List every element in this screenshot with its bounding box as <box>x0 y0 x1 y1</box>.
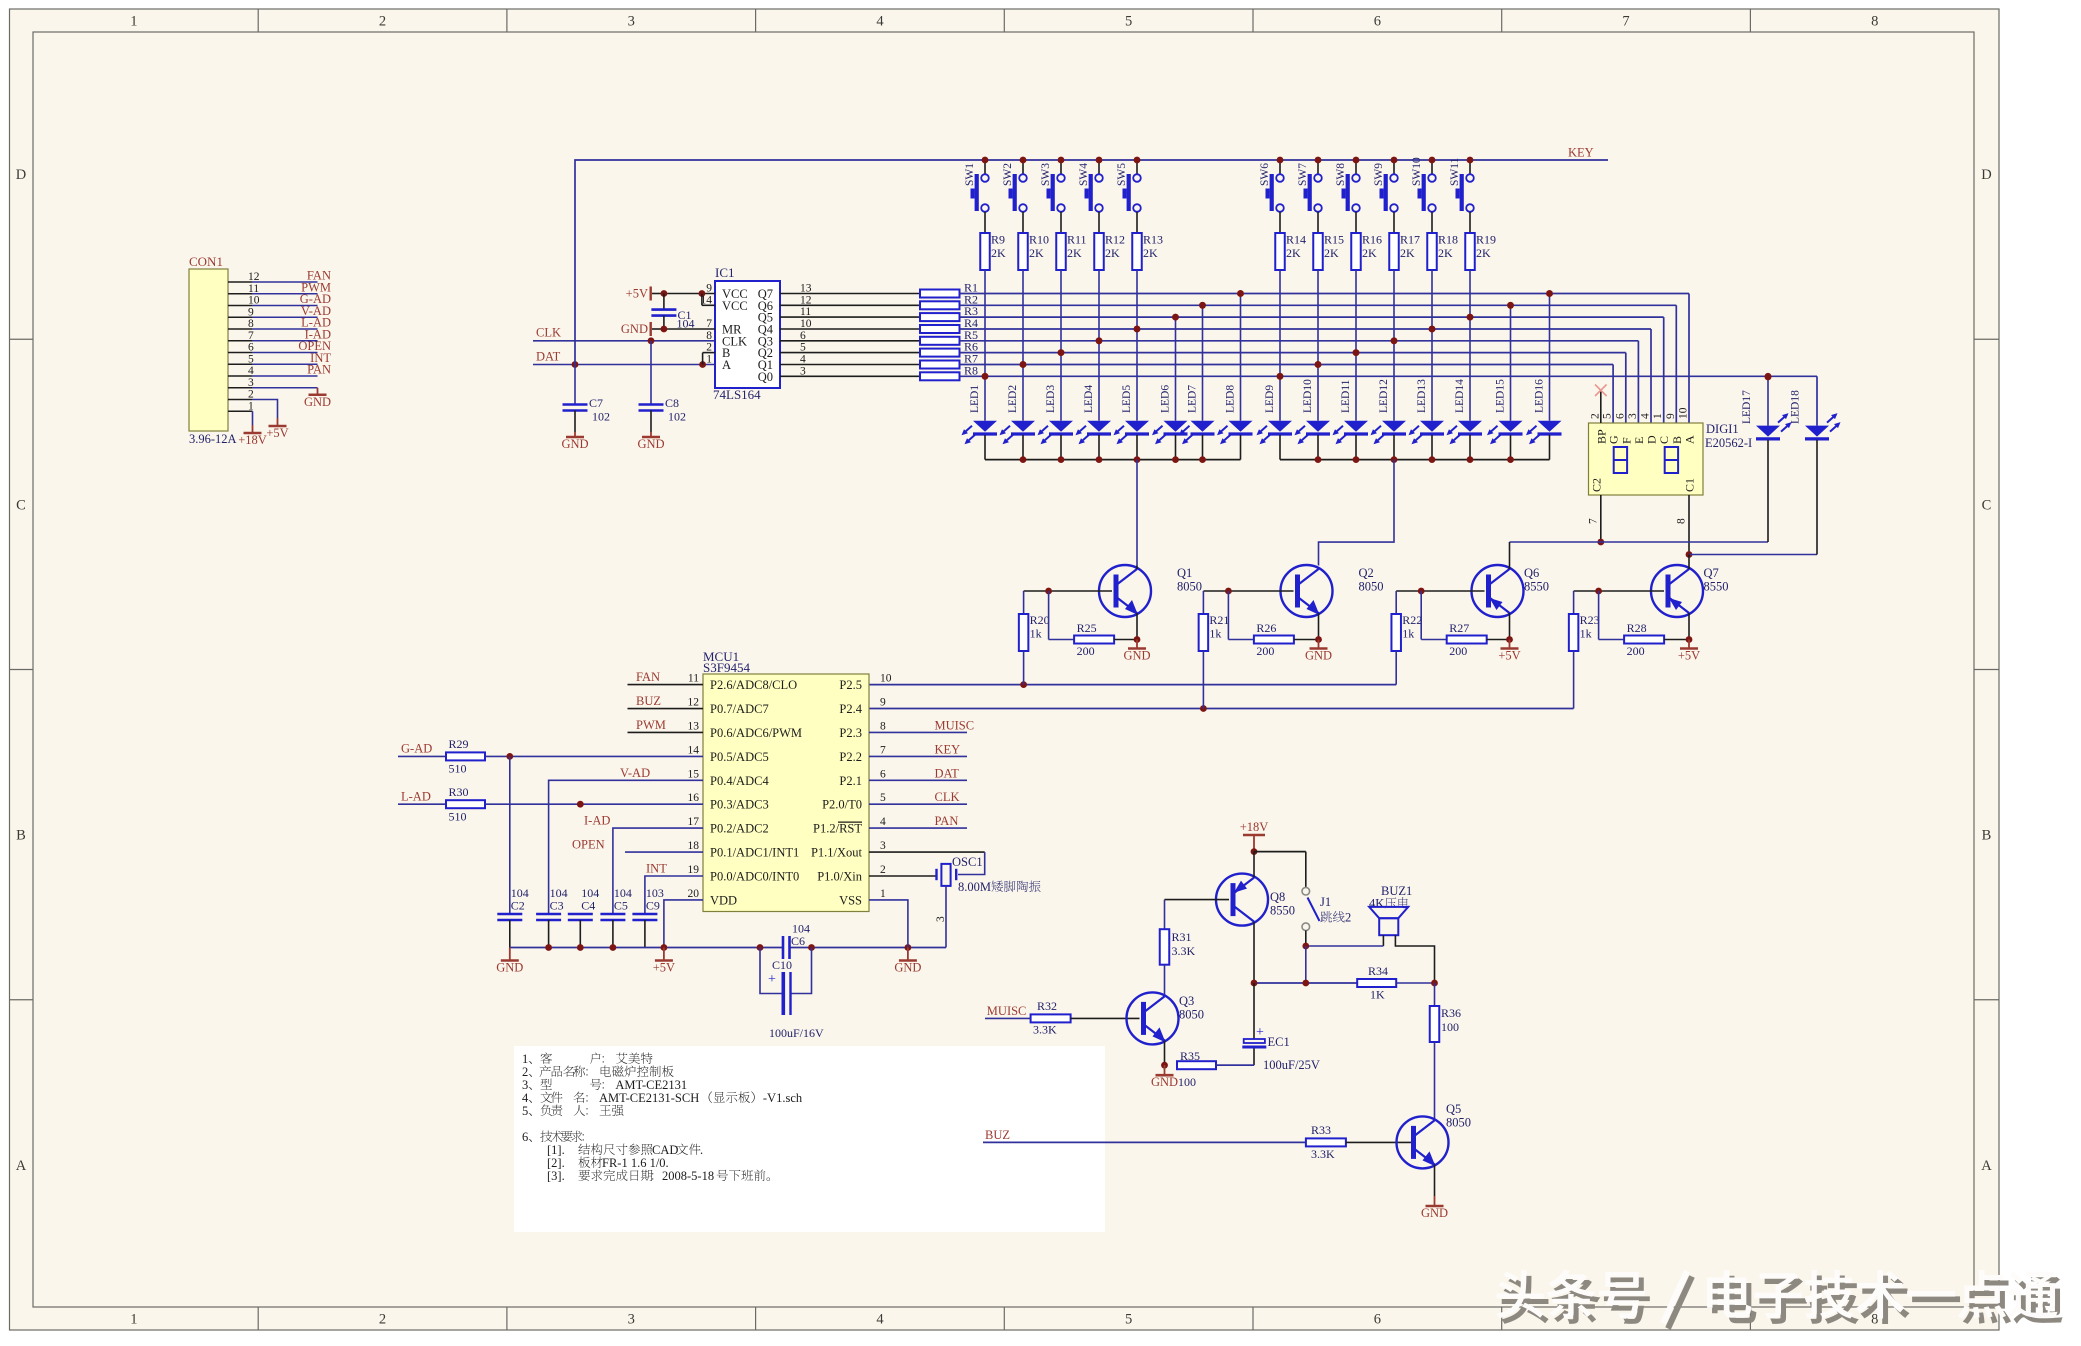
switch SW4 <box>1078 157 1103 233</box>
no-connect X on DIGI1 pin 2 <box>1595 385 1607 424</box>
svg-text:R19: R19 <box>1476 233 1496 247</box>
net MUISC stub at MCU <box>869 718 974 732</box>
power +18V at CON1 pin 1 <box>238 425 267 447</box>
wire base of Q6 <box>1396 588 1484 595</box>
resistor R8 <box>780 363 978 380</box>
svg-text:PAN: PAN <box>307 363 331 377</box>
ground at Q3 emitter <box>1151 1065 1178 1089</box>
wire R9 to row R8 <box>984 270 986 376</box>
wire R13 to row R4 <box>1136 270 1138 329</box>
wire base of Q7 <box>1574 588 1664 595</box>
CON1 pin 12 <box>228 269 331 284</box>
svg-text:SW4: SW4 <box>1078 163 1090 186</box>
svg-text:4: 4 <box>1640 413 1652 419</box>
svg-text:100uF/16V: 100uF/16V <box>769 1026 824 1040</box>
svg-text:KEY: KEY <box>1568 146 1594 160</box>
svg-text:P1.2/RST: P1.2/RST <box>813 822 862 836</box>
svg-text:R9: R9 <box>991 233 1005 247</box>
svg-text:LED1: LED1 <box>969 385 981 413</box>
LED LED7 <box>1179 302 1215 460</box>
wire IC1 MR <box>661 326 716 333</box>
svg-text:C2: C2 <box>511 899 525 913</box>
switch SW5 <box>1116 157 1141 233</box>
resistor R9 2K <box>980 233 1006 271</box>
ground at C8 <box>637 432 664 451</box>
svg-text:B: B <box>16 828 26 844</box>
svg-text:J1: J1 <box>1320 895 1331 909</box>
svg-text:CON1: CON1 <box>189 254 223 269</box>
resistor R19 2K <box>1465 233 1496 271</box>
wire row R4 <box>960 326 1652 423</box>
LED LED14 <box>1447 314 1483 460</box>
resistor R4 <box>780 316 978 333</box>
LED LED13 <box>1409 326 1445 460</box>
svg-text:2K: 2K <box>1362 246 1377 260</box>
svg-text:R35: R35 <box>1180 1049 1200 1063</box>
svg-text:LED6: LED6 <box>1160 385 1172 413</box>
LED LED16 <box>1526 290 1562 460</box>
net PWM stub at MCU pin 13 <box>628 718 704 733</box>
LED LED9 <box>1257 373 1293 460</box>
svg-text:P1.1/Xout: P1.1/Xout <box>811 846 863 860</box>
svg-text:LED5: LED5 <box>1121 385 1133 413</box>
svg-text:13: 13 <box>688 720 700 732</box>
svg-text:5: 5 <box>1125 1312 1132 1328</box>
svg-text:OSC1: OSC1 <box>952 855 983 869</box>
capacitor EC1 100uF/25V <box>1216 983 1320 1072</box>
CON1 pin 5 <box>228 351 331 366</box>
switch SW6 <box>1259 157 1284 233</box>
svg-text:C5: C5 <box>614 899 628 913</box>
svg-text:LED4: LED4 <box>1083 385 1095 413</box>
svg-text:R16: R16 <box>1362 233 1382 247</box>
wire IC1 VCC <box>661 290 716 305</box>
wire emitter of Q5 <box>1434 1165 1436 1197</box>
wire R10 to row R7 <box>1022 270 1024 365</box>
wire R11 to row R6 <box>1060 270 1062 353</box>
watermark <box>1496 1270 2062 1329</box>
wire bus to Q1 collector <box>1136 460 1138 566</box>
svg-text:LED15: LED15 <box>1495 379 1507 413</box>
wire emitter of Q2 <box>1315 613 1322 643</box>
svg-text:CLK: CLK <box>536 325 561 339</box>
svg-text:SW5: SW5 <box>1116 163 1128 186</box>
switch SW2 <box>1002 157 1027 233</box>
power +5V at IC1 <box>626 287 664 301</box>
buzzer BUZ1 4K piezo <box>1369 884 1435 983</box>
resistor R25 200 <box>1049 591 1137 658</box>
wire row R2 <box>960 302 1677 423</box>
svg-text:8: 8 <box>880 720 886 732</box>
svg-text:E20562-I: E20562-I <box>1705 436 1752 450</box>
svg-text:GND: GND <box>561 437 588 451</box>
svg-text:2: 2 <box>379 1312 386 1328</box>
svg-text:100uF/25V: 100uF/25V <box>1263 1058 1320 1072</box>
svg-text:2K: 2K <box>1029 246 1044 260</box>
resistor R18 2K <box>1427 233 1458 271</box>
wire bus to Q2 collector <box>1319 460 1395 566</box>
svg-text:R27: R27 <box>1449 621 1469 635</box>
svg-text:A: A <box>1981 1158 1992 1174</box>
wire row R5 <box>960 337 1639 423</box>
svg-text:C2: C2 <box>1589 478 1603 492</box>
svg-text:B: B <box>1982 828 1992 844</box>
svg-text:100: 100 <box>1441 1020 1459 1034</box>
wire R17 to row R5 <box>1393 270 1395 341</box>
svg-text:+: + <box>768 972 776 987</box>
svg-text:6: 6 <box>1614 413 1626 419</box>
resistor R28 200 <box>1599 591 1689 658</box>
svg-text:3: 3 <box>1627 413 1639 419</box>
capacitor C9 103 <box>632 886 664 948</box>
svg-text:R21: R21 <box>1209 613 1229 627</box>
svg-text:5: 5 <box>1125 14 1132 30</box>
svg-text:D: D <box>16 167 26 183</box>
DIGI1 pin 7 wire <box>1588 495 1605 545</box>
svg-text:P0.0/ADC0/INT0: P0.0/ADC0/INT0 <box>710 869 799 883</box>
svg-text:GND: GND <box>637 437 664 451</box>
svg-text:SW11: SW11 <box>1449 157 1461 186</box>
svg-text:C7: C7 <box>589 396 603 410</box>
capacitor C3 104 <box>536 886 568 948</box>
LED LED15 <box>1487 302 1523 460</box>
connector CON1 <box>189 254 237 446</box>
svg-text:7: 7 <box>1588 518 1600 524</box>
svg-text:R28: R28 <box>1627 621 1647 635</box>
net KEY stub at MCU <box>869 742 967 756</box>
svg-text:P2.4: P2.4 <box>839 702 862 716</box>
svg-text:102: 102 <box>668 410 686 424</box>
LED LED5 <box>1114 326 1150 460</box>
wire P2.5 row to R20 R22 <box>869 651 1396 688</box>
wire R16 to row R6 <box>1355 270 1357 353</box>
svg-text:C: C <box>16 497 26 513</box>
svg-text:LED11: LED11 <box>1340 379 1352 413</box>
ground at Q5 emitter <box>1421 1196 1448 1220</box>
svg-text:Q5: Q5 <box>1446 1102 1461 1116</box>
svg-text:Q7: Q7 <box>1704 566 1719 580</box>
resistor R22 1k <box>1391 591 1422 651</box>
capacitor C6 104 <box>783 922 810 960</box>
resistor R5 <box>780 328 978 345</box>
svg-text:100: 100 <box>1178 1075 1196 1089</box>
svg-text:LED2: LED2 <box>1007 385 1019 413</box>
svg-text:200: 200 <box>1449 644 1467 658</box>
CON1 pin 3 <box>228 377 318 389</box>
svg-text:4: 4 <box>876 1312 884 1328</box>
svg-text:SW2: SW2 <box>1002 163 1014 186</box>
svg-text:V-AD: V-AD <box>620 766 650 780</box>
LED LED11 <box>1333 349 1369 459</box>
resistor R6 <box>780 340 978 357</box>
CON1 pin 7 <box>228 327 331 342</box>
svg-text:VDD: VDD <box>710 893 737 907</box>
svg-text:8050: 8050 <box>1446 1116 1471 1130</box>
net CLK wire <box>533 325 715 344</box>
svg-text:3: 3 <box>628 14 635 30</box>
svg-text:P2.2: P2.2 <box>839 750 862 764</box>
svg-text:P0.2/ADC2: P0.2/ADC2 <box>710 822 769 836</box>
resistor R7 <box>780 352 978 369</box>
resistor R14 2K <box>1275 233 1306 271</box>
net CLK stub at MCU <box>869 790 967 804</box>
capacitor C7 <box>563 365 611 433</box>
svg-text:3: 3 <box>522 1078 528 1092</box>
svg-text:R32: R32 <box>1037 999 1057 1013</box>
svg-text:2K: 2K <box>1324 246 1339 260</box>
switch SW3 <box>1040 157 1065 233</box>
svg-text:8: 8 <box>1871 14 1878 30</box>
ground at C2 rail <box>496 948 523 975</box>
svg-text:P0.4/ADC4: P0.4/ADC4 <box>710 774 769 788</box>
svg-text:LED9: LED9 <box>1264 385 1276 413</box>
wire R12 to row R5 <box>1098 270 1100 341</box>
svg-text:8550: 8550 <box>1524 580 1549 594</box>
CON1 pin 10 <box>228 292 331 307</box>
svg-text:+5V: +5V <box>266 426 288 440</box>
svg-text:8050: 8050 <box>1177 580 1202 594</box>
svg-text:D: D <box>1981 167 1991 183</box>
power +5V at CON1 pin 2 <box>266 418 288 440</box>
svg-text:MUISC: MUISC <box>935 718 975 732</box>
svg-text:P2.6/ADC8/CLO: P2.6/ADC8/CLO <box>710 678 797 692</box>
resistor R13 2K <box>1132 233 1163 271</box>
svg-text:P0.7/ADC7: P0.7/ADC7 <box>710 702 769 716</box>
svg-text:5: 5 <box>1602 413 1614 419</box>
svg-text:GND: GND <box>496 961 523 975</box>
net FAN stub at MCU pin 11 <box>628 670 704 685</box>
net KEY bus wire <box>575 146 1608 365</box>
resistor R3 <box>780 304 978 321</box>
svg-text:2008-5-18: 2008-5-18 <box>662 1169 714 1183</box>
resonator OSC1 8.00M <box>869 852 1041 947</box>
LED LED17 <box>1741 374 1792 542</box>
svg-text:8550: 8550 <box>1704 580 1729 594</box>
svg-text:BUZ: BUZ <box>985 1128 1010 1142</box>
svg-text:3: 3 <box>628 1312 635 1328</box>
svg-text:9: 9 <box>1665 413 1677 419</box>
svg-text:2K: 2K <box>1438 246 1453 260</box>
svg-text:102: 102 <box>592 410 610 424</box>
svg-text:P2.0/T0: P2.0/T0 <box>822 798 862 812</box>
switch SW7 <box>1297 157 1322 233</box>
svg-text:510: 510 <box>449 762 467 776</box>
svg-text:BUZ1: BUZ1 <box>1381 884 1412 898</box>
svg-text:R30: R30 <box>449 785 469 799</box>
svg-text:7: 7 <box>880 744 886 756</box>
svg-text:R20: R20 <box>1030 613 1050 627</box>
svg-text:R10: R10 <box>1029 233 1049 247</box>
CON1 pin 4 <box>228 363 331 378</box>
svg-text:1k: 1k <box>1209 627 1221 641</box>
svg-text:3: 3 <box>935 916 947 922</box>
svg-text:C1: C1 <box>1683 478 1697 492</box>
transistor Q1 8050 <box>1099 565 1202 617</box>
svg-text:+5V: +5V <box>1678 649 1700 663</box>
svg-text:LED8: LED8 <box>1225 385 1237 413</box>
svg-text:R15: R15 <box>1324 233 1344 247</box>
svg-text:R26: R26 <box>1256 621 1276 635</box>
svg-text:R33: R33 <box>1311 1123 1331 1137</box>
wire emitter of Q6 <box>1506 613 1513 643</box>
svg-text:AMT-CE2131-SCH: AMT-CE2131-SCH <box>599 1091 699 1105</box>
svg-text:200: 200 <box>1077 644 1095 658</box>
svg-text:Q8: Q8 <box>1270 890 1285 904</box>
resistor R26 200 <box>1228 591 1318 658</box>
svg-text:FAN: FAN <box>636 670 660 684</box>
svg-text:P2.1: P2.1 <box>839 774 862 788</box>
svg-text:10: 10 <box>880 673 892 685</box>
svg-text:14: 14 <box>688 744 700 756</box>
svg-text:GND: GND <box>1123 649 1150 663</box>
svg-text:C3: C3 <box>550 899 564 913</box>
svg-text:R8: R8 <box>964 363 978 377</box>
svg-text:C8: C8 <box>665 396 679 410</box>
wire emitter of Q1 <box>1134 613 1141 643</box>
transistor Q8 8550 <box>1216 852 1295 983</box>
svg-text:8050: 8050 <box>1359 580 1384 594</box>
capacitor C8 <box>639 341 687 432</box>
net PAN stub at MCU <box>869 814 967 828</box>
svg-text:+5V: +5V <box>653 961 675 975</box>
svg-text:8.00M: 8.00M <box>958 880 991 894</box>
svg-text:A: A <box>722 358 731 372</box>
wire collector of Q1 <box>1136 566 1138 570</box>
resistor R12 2K <box>1094 233 1125 271</box>
power +5V at VDD rail <box>653 948 675 975</box>
svg-text:GND: GND <box>1151 1075 1178 1089</box>
ground at VSS <box>894 948 921 975</box>
svg-text:1K: 1K <box>1370 988 1385 1002</box>
ground at IC1 MR <box>621 322 664 336</box>
wire C1 common to LED18 <box>1689 554 1817 556</box>
svg-text:VSS: VSS <box>839 893 862 907</box>
wire LED9-LED16 common bus <box>1280 456 1550 463</box>
svg-text:15: 15 <box>688 768 700 780</box>
svg-text:2: 2 <box>1345 911 1351 925</box>
resistor R11 2K <box>1056 233 1086 271</box>
svg-text:R22: R22 <box>1402 613 1422 627</box>
CON1 pin 1 <box>228 400 254 425</box>
svg-text:200: 200 <box>1256 644 1274 658</box>
svg-text:9: 9 <box>880 697 886 709</box>
capacitor C10 100uF/16V <box>760 948 824 1041</box>
svg-text:LED18: LED18 <box>1790 390 1802 424</box>
svg-text:LED10: LED10 <box>1302 379 1314 413</box>
svg-text:4: 4 <box>880 816 886 828</box>
wire base of Q1 <box>1024 588 1112 595</box>
ground at C7 <box>561 432 588 451</box>
svg-text:+18V: +18V <box>238 433 267 447</box>
svg-text:74LS164: 74LS164 <box>713 387 761 402</box>
wire C2 common to LED17 <box>1510 541 1769 543</box>
svg-text:Q0: Q0 <box>758 370 773 384</box>
jumper J1 <box>1302 852 1351 946</box>
svg-text:8: 8 <box>1676 518 1688 524</box>
svg-text:R18: R18 <box>1438 233 1458 247</box>
svg-text:G-AD: G-AD <box>401 742 432 756</box>
resistor R17 2K <box>1389 233 1420 271</box>
svg-text:VCC: VCC <box>722 299 748 313</box>
svg-text:LED17: LED17 <box>1741 390 1753 424</box>
svg-text:10: 10 <box>1678 407 1690 419</box>
svg-text:16: 16 <box>688 792 700 804</box>
svg-text:5: 5 <box>880 792 886 804</box>
resistor R2 <box>780 292 978 309</box>
resistor R34 1K <box>1251 964 1438 1002</box>
wire row R1 <box>960 290 1690 423</box>
svg-text:8050: 8050 <box>1179 1008 1204 1022</box>
svg-text:CLK: CLK <box>935 790 960 804</box>
svg-text:PWM: PWM <box>636 718 666 732</box>
wire VSS to ground rail <box>869 900 908 948</box>
svg-text:P0.3/ADC3: P0.3/ADC3 <box>710 798 769 812</box>
svg-text:2K: 2K <box>1400 246 1415 260</box>
power +5V at Q7 emitter <box>1678 640 1700 663</box>
svg-text:DIGI1: DIGI1 <box>1706 422 1739 436</box>
svg-text:R31: R31 <box>1172 930 1192 944</box>
CON1 pin 2 <box>228 389 278 419</box>
wire LED1-LED8 common bus <box>985 456 1241 463</box>
svg-text:R12: R12 <box>1105 233 1125 247</box>
svg-text:Q3: Q3 <box>1179 994 1194 1008</box>
wire emitter of Q3 <box>1161 1041 1168 1069</box>
resistor R23 1k <box>1569 591 1600 651</box>
svg-text:[3].: [3]. <box>547 1169 565 1183</box>
svg-text:Q6: Q6 <box>1524 566 1539 580</box>
svg-text:DAT: DAT <box>536 350 561 364</box>
net L-AD / resistor R30 510 <box>398 785 703 824</box>
wire R19 to row R3 <box>1469 270 1471 317</box>
net INT wire <box>645 862 703 915</box>
resistor R20 1k <box>1019 591 1050 651</box>
wire emitter of Q7 <box>1686 613 1693 643</box>
svg-text:5: 5 <box>522 1104 528 1118</box>
svg-text:1k: 1k <box>1402 627 1414 641</box>
wire VDD <box>664 900 703 948</box>
svg-text:+5V: +5V <box>626 287 648 301</box>
IC MCU1 S3F9454 <box>688 649 892 912</box>
wire R15 to row R7 <box>1317 270 1319 365</box>
wire J1 to BUZ1 <box>1302 943 1383 983</box>
capacitor C5 104 <box>600 886 632 948</box>
resistor R1 <box>780 281 978 298</box>
capacitor C4 104 <box>568 886 600 948</box>
capacitor C2 104 <box>497 756 529 947</box>
ground at CON1 pin 3 <box>304 388 331 409</box>
svg-text:R29: R29 <box>449 737 469 751</box>
svg-text:R13: R13 <box>1143 233 1163 247</box>
svg-text:6: 6 <box>880 768 886 780</box>
svg-text:LED7: LED7 <box>1187 385 1199 413</box>
svg-text:R11: R11 <box>1067 233 1087 247</box>
LED LED10 <box>1295 361 1331 460</box>
svg-text:[2].: [2]. <box>547 1156 565 1170</box>
transistor Q5 8050 <box>1397 1102 1472 1168</box>
svg-text:KEY: KEY <box>935 742 961 756</box>
svg-text:CAD: CAD <box>652 1143 678 1157</box>
capacitor C1 <box>651 294 694 331</box>
svg-text:GND: GND <box>1305 649 1332 663</box>
svg-text:Q1: Q1 <box>1177 566 1192 580</box>
svg-text:GND: GND <box>621 322 648 336</box>
wire collector of Q7 <box>1688 555 1690 570</box>
LED LED2 <box>1000 361 1036 460</box>
svg-text:6: 6 <box>1374 14 1381 30</box>
svg-text:SW7: SW7 <box>1297 163 1309 186</box>
svg-text:LED16: LED16 <box>1534 379 1546 413</box>
resistor R36 100 <box>1430 983 1461 1120</box>
